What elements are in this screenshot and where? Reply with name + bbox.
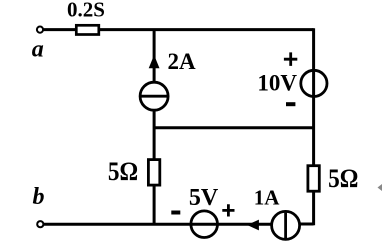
resistor 5ohm left — [148, 160, 159, 186]
grey cursor arrow at right edge — [378, 184, 382, 191]
arrow for current source 1A (points left) — [247, 220, 259, 231]
label - of 5V — [171, 211, 180, 215]
svg-text:10V: 10V — [257, 70, 297, 95]
voltage source 5V — [191, 211, 218, 238]
terminal b — [37, 221, 43, 227]
svg-text:5Ω: 5Ω — [328, 164, 358, 193]
label + of 5V — [222, 204, 234, 216]
svg-text:0.2S: 0.2S — [67, 0, 105, 22]
wire top from terminal a to resistor 0.2S — [43, 28, 77, 31]
svg-text:5V: 5V — [189, 185, 219, 211]
label - of 10V — [286, 102, 295, 106]
current source 1A — [272, 211, 300, 239]
resistor 5ohm right — [308, 166, 319, 192]
wire bottom-right from current source 1A to right branch corner — [299, 223, 314, 226]
wire top from resistor 0.2S to top-right corner — [99, 28, 314, 31]
current source 2A — [140, 82, 168, 110]
wire bottom from terminal b to current source 1A — [44, 223, 273, 226]
terminal a — [37, 27, 43, 33]
svg-text:a: a — [32, 37, 44, 63]
label + of 10V — [284, 52, 297, 66]
wire right branch vertical (top corner down to bottom corner) — [312, 28, 315, 225]
svg-text:5Ω: 5Ω — [108, 157, 138, 186]
arrow for current source 2A — [149, 55, 160, 68]
svg-text:1A: 1A — [254, 186, 280, 210]
voltage source 10V — [301, 70, 327, 96]
svg-text:b: b — [33, 184, 45, 210]
resistor 0.2S — [76, 25, 99, 34]
svg-text:2A: 2A — [168, 49, 197, 74]
wire middle branch vertical at x=154 — [153, 30, 156, 225]
wire middle horizontal linking both branches — [154, 126, 314, 129]
